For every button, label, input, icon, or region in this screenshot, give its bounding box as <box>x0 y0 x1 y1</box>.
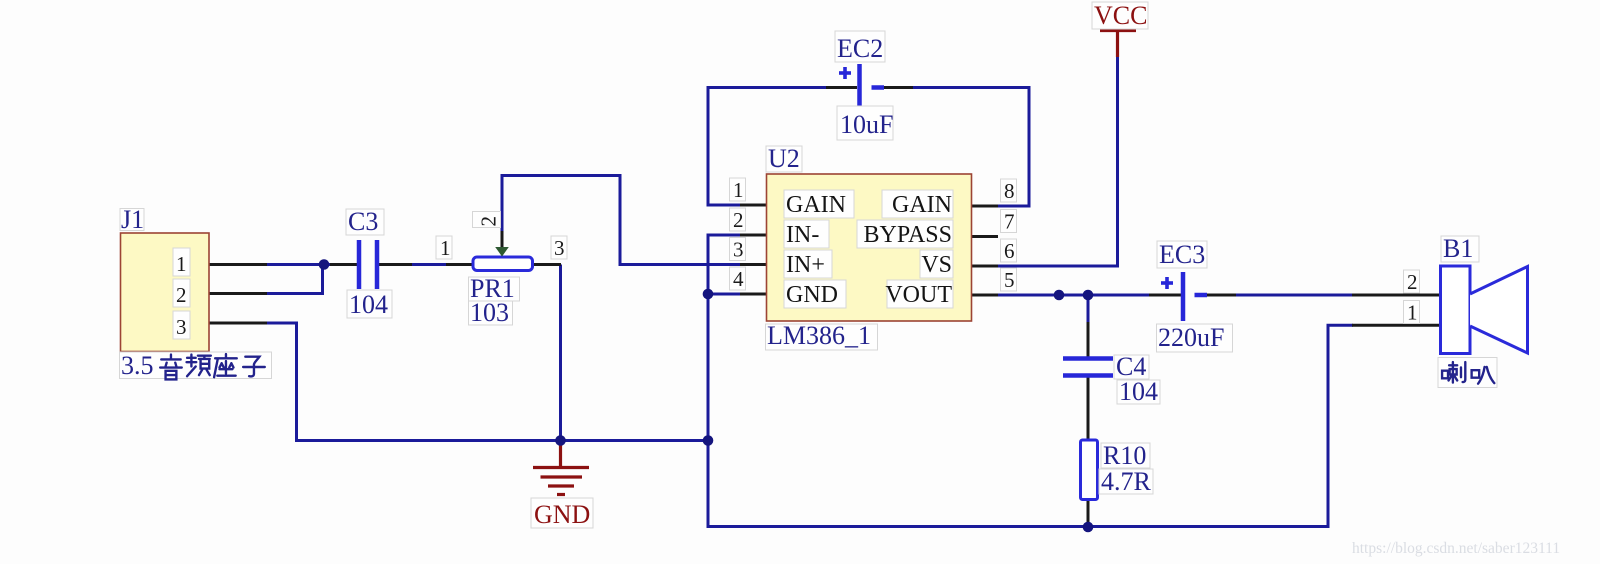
svg-text:https://blog.csdn.net/saber123: https://blog.csdn.net/saber123111 <box>1352 540 1560 557</box>
svg-text:104: 104 <box>1119 377 1158 406</box>
svg-text:LM386_1: LM386_1 <box>767 321 871 350</box>
svg-text:C3: C3 <box>348 207 378 236</box>
svg-text:GND: GND <box>786 282 838 308</box>
svg-text:GAIN: GAIN <box>786 192 846 218</box>
svg-text:3.5: 3.5 <box>121 351 154 380</box>
svg-text:8: 8 <box>1004 179 1015 203</box>
svg-text:3: 3 <box>176 315 187 339</box>
svg-text:2: 2 <box>477 216 501 227</box>
svg-text:3: 3 <box>554 236 565 260</box>
svg-text:103: 103 <box>470 298 509 327</box>
svg-text:EC2: EC2 <box>837 34 883 63</box>
svg-text:1: 1 <box>440 236 451 260</box>
svg-text:IN+: IN+ <box>786 252 825 278</box>
svg-text:R10: R10 <box>1103 441 1146 470</box>
svg-text:1: 1 <box>733 178 744 202</box>
svg-text:2: 2 <box>1407 270 1418 294</box>
svg-text:GND: GND <box>534 500 590 529</box>
svg-text:1: 1 <box>176 252 187 276</box>
svg-text:4: 4 <box>733 267 744 291</box>
svg-text:7: 7 <box>1004 210 1015 234</box>
svg-text:5: 5 <box>1004 268 1015 292</box>
svg-text:2: 2 <box>733 208 744 232</box>
svg-text:4.7R: 4.7R <box>1101 467 1152 496</box>
svg-text:IN-: IN- <box>786 222 819 248</box>
svg-text:104: 104 <box>349 290 388 319</box>
svg-text:VCC: VCC <box>1094 1 1147 30</box>
svg-text:1: 1 <box>1407 301 1418 325</box>
svg-text:EC3: EC3 <box>1159 240 1205 269</box>
svg-text:VS: VS <box>921 252 952 278</box>
svg-text:220uF: 220uF <box>1158 323 1224 352</box>
svg-text:U2: U2 <box>768 144 800 173</box>
svg-text:2: 2 <box>176 283 187 307</box>
svg-text:3: 3 <box>733 238 744 262</box>
svg-text:BYPASS: BYPASS <box>863 222 952 248</box>
svg-text:6: 6 <box>1004 239 1015 263</box>
svg-text:10uF: 10uF <box>840 110 893 139</box>
svg-text:GAIN: GAIN <box>892 192 952 218</box>
svg-text:VOUT: VOUT <box>885 282 952 308</box>
svg-text:J1: J1 <box>121 205 144 234</box>
svg-text:B1: B1 <box>1443 234 1473 263</box>
